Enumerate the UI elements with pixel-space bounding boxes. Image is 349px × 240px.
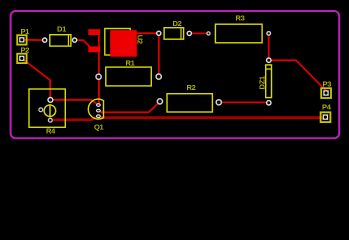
wire D2 right pad to R3 left pad bbox=[189, 32, 208, 34]
connector pad P1 bbox=[17, 35, 26, 44]
wire P1 to D1 left pad bbox=[22, 39, 45, 41]
trimmer R4 bbox=[29, 89, 65, 127]
resistor R1 bbox=[96, 67, 161, 86]
wire R2 right pad to DZ1 bottom pad bbox=[219, 101, 269, 103]
svg-text:U2: U2 bbox=[136, 35, 145, 44]
svg-text:P2: P2 bbox=[21, 46, 30, 55]
svg-text:D1: D1 bbox=[57, 24, 66, 33]
transistor Q1 bbox=[88, 99, 103, 119]
diode D1 bbox=[43, 35, 77, 46]
zener diode DZ1 bbox=[266, 58, 272, 105]
connector pad P3 bbox=[321, 88, 331, 98]
resistor R2 bbox=[157, 94, 221, 112]
wire D1 right pad to U2 lower-left pad bbox=[75, 40, 90, 47]
svg-text:DZ1: DZ1 bbox=[258, 76, 267, 89]
svg-text:P4: P4 bbox=[322, 103, 332, 112]
connector pad P2 bbox=[17, 54, 26, 63]
svg-text:P3: P3 bbox=[323, 80, 332, 89]
wire P2 to R4 top pad bbox=[22, 58, 50, 100]
wire R3 right pad down to DZ1 top pad bbox=[268, 33, 270, 60]
svg-text:R4: R4 bbox=[46, 127, 56, 136]
resistor R3 bbox=[207, 24, 271, 43]
wire DZ1 top pad to P3 bbox=[269, 60, 326, 93]
wire R4 bottom pad to Q1 pin3 bbox=[50, 116, 98, 120]
svg-text:R1: R1 bbox=[126, 59, 135, 68]
svg-text:D2: D2 bbox=[173, 19, 182, 28]
wire U2 left pads down through R1 left pad to Q1 pin1 bbox=[98, 32, 100, 105]
wire D2 left pad down to R1 right pad bbox=[158, 33, 160, 76]
wire R4 top pad to Q1 pin1 bbox=[50, 100, 98, 105]
board outline keepout border bbox=[11, 11, 340, 138]
diode D2 bbox=[157, 28, 192, 40]
wire Q1 pin2 to R2 left pad bbox=[98, 102, 159, 113]
svg-text:R3: R3 bbox=[236, 14, 245, 23]
connector pad P4 bbox=[321, 112, 331, 122]
wire U2 body to D2 left pad bbox=[135, 32, 159, 34]
svg-text:R2: R2 bbox=[187, 83, 196, 92]
ic U2 bbox=[88, 29, 137, 57]
wire Q1 pin3 to P4 long trace bbox=[98, 116, 325, 118]
svg-text:Q1: Q1 bbox=[94, 123, 104, 132]
svg-text:P1: P1 bbox=[21, 27, 30, 36]
